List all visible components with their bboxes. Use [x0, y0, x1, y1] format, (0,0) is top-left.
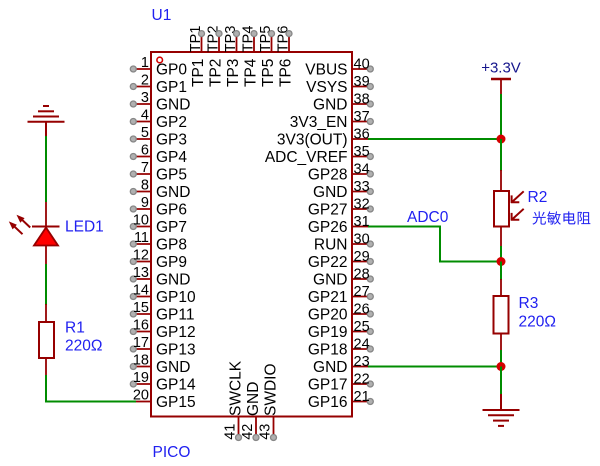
svg-text:LED1: LED1	[65, 219, 104, 236]
svg-text:3: 3	[141, 90, 149, 106]
svg-text:40: 40	[354, 57, 370, 73]
U1 pin 34 (GP28)	[308, 162, 373, 184]
U1 pin 12 (GP9)	[130, 248, 187, 272]
svg-text:18: 18	[133, 353, 149, 369]
U1 pin 31 (GP26)	[308, 214, 370, 236]
svg-text:TP3: TP3	[225, 59, 242, 87]
svg-text:23: 23	[354, 354, 370, 370]
svg-text:31: 31	[354, 214, 370, 230]
U1 pin 37 (3V3_EN)	[290, 109, 374, 131]
U1 pin 14 (GP10)	[130, 283, 196, 307]
svg-text:7: 7	[141, 160, 149, 176]
svg-text:GP0: GP0	[156, 62, 187, 79]
U1 pin 41 (SWCLK)	[223, 360, 245, 440]
svg-text:35: 35	[354, 144, 370, 160]
wire R3 to GND junction	[500, 350, 502, 367]
svg-text:8: 8	[141, 178, 149, 194]
svg-text:GP15: GP15	[156, 394, 196, 411]
U1 pin 40 (VBUS)	[305, 57, 373, 79]
svg-text:R1: R1	[65, 320, 85, 337]
svg-text:39: 39	[354, 74, 370, 90]
svg-text:14: 14	[133, 283, 149, 299]
U1 pin TP5 (top test point)	[258, 26, 277, 87]
U1 pin 30 (RUN)	[314, 232, 373, 254]
U1 pin 24 (GP18)	[308, 337, 373, 359]
U1 pin 43 (SWDIO)	[258, 363, 280, 440]
U1 pin 38 (GND)	[313, 92, 373, 114]
U1 pin 13 (GND)	[130, 265, 190, 289]
U1 pin 18 (GND)	[130, 353, 190, 377]
U1 pin 19 (GP14)	[130, 370, 196, 394]
svg-text:GP26: GP26	[308, 219, 348, 236]
U1 pin 3 (GND)	[130, 90, 190, 114]
wire +3.3V to junction	[500, 94, 502, 139]
svg-text:24: 24	[354, 337, 370, 353]
svg-text:GND: GND	[313, 359, 347, 376]
svg-text:GP9: GP9	[156, 254, 187, 271]
svg-text:GP19: GP19	[308, 324, 348, 341]
svg-text:13: 13	[133, 265, 149, 281]
U1 pin 36 (3V3(OUT))	[277, 127, 370, 149]
svg-text:GP27: GP27	[308, 202, 348, 219]
svg-text:29: 29	[354, 249, 370, 265]
svg-text:GP5: GP5	[156, 167, 187, 184]
svg-text:3V3_EN: 3V3_EN	[290, 114, 348, 131]
U1 pin 39 (VSYS)	[306, 74, 373, 96]
svg-text:SWDIO: SWDIO	[263, 363, 280, 416]
svg-text:17: 17	[133, 335, 149, 351]
U1 pin 29 (GP22)	[308, 249, 373, 271]
svg-text:TP1: TP1	[190, 59, 207, 87]
U1 pin 9 (GP6)	[130, 195, 187, 219]
U1 pin 5 (GP3)	[130, 125, 187, 149]
svg-text:9: 9	[141, 195, 149, 211]
U1 pin 42 (GND)	[240, 382, 262, 441]
svg-text:15: 15	[133, 300, 149, 316]
svg-text:21: 21	[354, 389, 370, 405]
svg-text:GP6: GP6	[156, 202, 187, 219]
U1 pin 27 (GP21)	[308, 284, 373, 306]
svg-text:30: 30	[354, 232, 370, 248]
U1 pin TP2 (top test point)	[206, 26, 225, 87]
svg-text:GND: GND	[156, 184, 190, 201]
U1 pin 23 (GND)	[313, 354, 370, 376]
svg-text:220Ω: 220Ω	[65, 338, 102, 355]
svg-text:34: 34	[354, 162, 370, 178]
svg-text:R2: R2	[528, 189, 548, 206]
resistor R2 (photoresistor)	[494, 170, 524, 246]
svg-text:GP21: GP21	[308, 289, 348, 306]
svg-text:GP2: GP2	[156, 114, 187, 131]
svg-text:28: 28	[354, 267, 370, 283]
R2 value (photoresistor, Chinese)	[532, 211, 590, 224]
power port +3.3V	[481, 60, 521, 96]
U1 pin 26 (GP20)	[308, 302, 373, 324]
wire junction to ground	[500, 367, 502, 396]
svg-text:TP6: TP6	[278, 59, 295, 87]
svg-text:3V3(OUT): 3V3(OUT)	[277, 132, 348, 149]
resistor R3	[494, 279, 509, 351]
svg-text:37: 37	[354, 109, 370, 125]
wire R2 to junction ADC0	[500, 246, 502, 262]
U1 pin 7 (GP5)	[130, 160, 187, 184]
svg-text:GP20: GP20	[308, 307, 348, 324]
svg-text:26: 26	[354, 302, 370, 318]
wire ground to LED1 cathode	[45, 136, 47, 202]
U1 pin 11 (GP8)	[130, 230, 187, 254]
U1 pin 8 (GND)	[130, 178, 190, 202]
svg-text:38: 38	[354, 92, 370, 108]
svg-text:GP1: GP1	[156, 79, 187, 96]
ground (top, flipped) above LED1	[28, 106, 65, 137]
wire junction to R2	[500, 139, 502, 171]
svg-text:PICO: PICO	[153, 444, 191, 461]
svg-text:220Ω: 220Ω	[519, 314, 556, 331]
svg-text:GP7: GP7	[156, 219, 187, 236]
svg-text:32: 32	[354, 197, 370, 213]
svg-text:VBUS: VBUS	[305, 62, 347, 79]
svg-text:GND: GND	[156, 97, 190, 114]
U1 pin 33 (GND)	[313, 179, 373, 201]
svg-text:GP22: GP22	[308, 254, 348, 271]
U1 pin 22 (GP17)	[308, 372, 373, 394]
wire LED1 to R1	[45, 264, 47, 305]
resistor R1	[39, 304, 54, 376]
LED LED1	[9, 202, 60, 264]
svg-text:GP10: GP10	[156, 289, 196, 306]
svg-text:ADC_VREF: ADC_VREF	[265, 149, 348, 166]
svg-text:GND: GND	[313, 97, 347, 114]
svg-text:GP8: GP8	[156, 237, 187, 254]
svg-text:19: 19	[133, 370, 149, 386]
svg-text:22: 22	[354, 372, 370, 388]
svg-text:R3: R3	[519, 295, 539, 312]
svg-text:1: 1	[141, 55, 149, 71]
U1 pin TP3 (top test point)	[223, 26, 242, 87]
svg-text:VSYS: VSYS	[306, 79, 347, 96]
svg-text:GP12: GP12	[156, 324, 196, 341]
svg-text:27: 27	[354, 284, 370, 300]
U1 pin 6 (GP4)	[130, 143, 187, 167]
svg-text:GND: GND	[156, 272, 190, 289]
svg-text:36: 36	[354, 127, 370, 143]
svg-text:GP4: GP4	[156, 149, 187, 166]
U1 pin 25 (GP19)	[308, 319, 373, 341]
IC U1 body	[151, 52, 352, 417]
U1 pin 20 (GP15)	[133, 388, 196, 412]
wire U1 pin 36 3V3(OUT) to +3.3V rail	[368, 138, 501, 140]
U1 pin TP4 (top test point)	[241, 26, 260, 87]
svg-text:GP16: GP16	[308, 394, 348, 411]
svg-text:GP3: GP3	[156, 132, 187, 149]
wire U1 pin 23 GND to ground rail	[368, 366, 501, 368]
svg-text:GP17: GP17	[308, 377, 348, 394]
U1 pin 10 (GP7)	[130, 213, 187, 237]
U1 pin 1 (GP0)	[130, 55, 187, 79]
U1 pin 21 (GP16)	[308, 389, 373, 411]
svg-text:TP2: TP2	[208, 59, 225, 87]
svg-text:GP18: GP18	[308, 342, 348, 359]
junction ADC0 node	[497, 257, 506, 266]
U1 pin TP1 (top test point)	[188, 26, 207, 87]
svg-text:GP14: GP14	[156, 377, 196, 394]
ground (bottom right)	[483, 394, 520, 426]
svg-text:33: 33	[354, 179, 370, 195]
svg-text:U1: U1	[152, 7, 172, 24]
svg-text:12: 12	[133, 248, 149, 264]
svg-text:GND: GND	[313, 184, 347, 201]
svg-text:2: 2	[141, 73, 149, 89]
svg-text:5: 5	[141, 125, 149, 141]
U1 pin 4 (GP2)	[130, 108, 187, 132]
U1 pin 15 (GP11)	[130, 300, 194, 324]
svg-text:4: 4	[141, 108, 149, 124]
svg-text:GND: GND	[313, 272, 347, 289]
U1 pin TP6 (top test point)	[276, 26, 295, 87]
svg-text:ADC0: ADC0	[407, 209, 449, 226]
U1 pin 35 (ADC_VREF)	[265, 144, 373, 166]
svg-text:TP5: TP5	[260, 59, 277, 87]
wire R1 to U1 pin 20 GP15	[46, 375, 136, 402]
U1 pin 28 (GND)	[313, 267, 373, 289]
U1 pin 32 (GP27)	[308, 197, 373, 219]
svg-text:10: 10	[133, 213, 149, 229]
svg-text:RUN: RUN	[314, 237, 348, 254]
svg-text:TP4: TP4	[243, 58, 260, 87]
svg-text:GP11: GP11	[156, 307, 195, 324]
U1 pin 16 (GP12)	[130, 318, 195, 342]
U1 pin 2 (GP1)	[130, 73, 187, 97]
U1 pin 1 indicator circle	[157, 57, 163, 63]
svg-text:+3.3V: +3.3V	[481, 60, 521, 77]
wire junction to R3	[500, 262, 502, 281]
junction ground node	[497, 362, 506, 371]
svg-text:GND: GND	[245, 382, 262, 416]
junction 3V3 rail	[497, 135, 506, 144]
svg-text:SWCLK: SWCLK	[228, 360, 245, 416]
svg-text:6: 6	[141, 143, 149, 159]
svg-text:16: 16	[133, 318, 149, 334]
svg-text:25: 25	[354, 319, 370, 335]
svg-text:GP13: GP13	[156, 342, 196, 359]
svg-text:GND: GND	[156, 359, 190, 376]
wire U1 pin 31 GP26 to ADC0 node	[368, 227, 501, 262]
U1 pin 17 (GP13)	[130, 335, 195, 359]
svg-text:GP28: GP28	[308, 167, 348, 184]
svg-text:11: 11	[134, 230, 149, 246]
